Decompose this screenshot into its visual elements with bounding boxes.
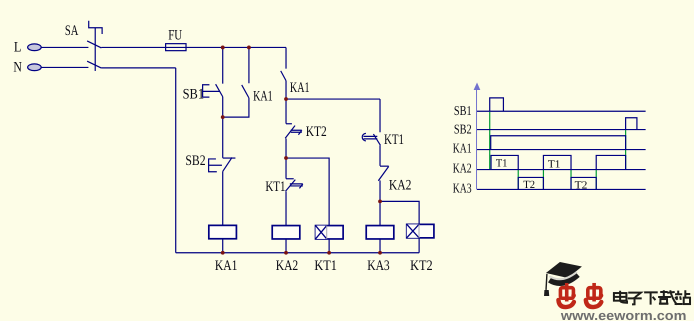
- junction dot node KT2/KT1: [284, 156, 288, 160]
- switch SA linkage bracket: [89, 21, 102, 34]
- fuse FU body: [166, 44, 186, 51]
- timing KA3 pulse 1: [518, 177, 543, 189]
- wire N to SA: [41, 66, 88, 68]
- wire node to KT2 coil branch: [380, 201, 419, 224]
- timing green marker t5: [625, 130, 627, 170]
- logo graduation cap tassel tuft: [544, 290, 549, 296]
- pushbutton SB2 actuator bracket: [209, 159, 222, 172]
- timing KA3 baseline: [477, 188, 646, 190]
- timer coil KT2 X square fill: [407, 224, 419, 238]
- svg-text:KT1: KT1: [265, 179, 285, 195]
- contact KT1 NO delay symbol: [363, 136, 377, 139]
- wire coil KT2 to rail: [418, 238, 420, 253]
- timing SB2 pulse: [626, 118, 637, 130]
- svg-text:SB1: SB1: [454, 103, 472, 118]
- junction dot node KA3/KT2: [378, 199, 382, 203]
- junction dot node KA1 contact: [284, 97, 288, 101]
- junction dot top 1: [221, 46, 225, 50]
- svg-text:KT1: KT1: [314, 258, 337, 274]
- junction dot top 2: [247, 46, 251, 50]
- pushbutton SB1 actuator bracket: [203, 85, 220, 97]
- switch SA linkage bar: [94, 28, 96, 71]
- wire coil KT1 to rail: [328, 239, 330, 253]
- logo char zai slash: [667, 290, 677, 304]
- pushbutton SB1 blade: [216, 84, 223, 97]
- svg-text:KA1: KA1: [215, 258, 238, 274]
- contact KT2 blade: [285, 126, 295, 139]
- logo char xia stem: [651, 292, 656, 304]
- wire FU to node corner: [186, 46, 286, 48]
- logo char xia top: [644, 291, 658, 293]
- timing KA1 baseline: [477, 149, 646, 151]
- contact KT2 fixed bar: [286, 123, 292, 125]
- logo char dian hook: [620, 300, 627, 302]
- logo worm char 1 stem: [565, 283, 569, 302]
- contact KA1 seal-in top drop: [248, 47, 250, 83]
- junction dot rail KA2: [284, 251, 288, 255]
- junction dot rail KA3: [378, 251, 382, 255]
- timing green marker t0: [489, 112, 491, 170]
- timer coil KT1 X mark: [316, 226, 327, 239]
- svg-text:KA2: KA2: [453, 160, 472, 175]
- junction dot rail KA1: [221, 251, 225, 255]
- wire KA2 contact to node: [379, 180, 381, 201]
- terminal N: [28, 64, 42, 71]
- wire KT1 NO to KA2 contact: [379, 145, 381, 166]
- relay coil KA3: [366, 226, 394, 239]
- wire KA1 contact to node: [285, 81, 287, 99]
- contact KT2 delay symbol: [291, 130, 302, 135]
- wire node to SB2: [222, 117, 224, 158]
- pushbutton SB2 stop bar: [223, 157, 236, 159]
- svg-text:KT2: KT2: [306, 124, 327, 140]
- logo graduation cap tassel cord: [545, 274, 548, 290]
- svg-text:KA2: KA2: [389, 177, 412, 193]
- logo char zhan li: [675, 291, 683, 304]
- logo char zai top: [658, 290, 671, 297]
- logo char zi top: [628, 293, 641, 298]
- wire SA to FU: [101, 46, 165, 48]
- wire N rail left vertical: [175, 68, 177, 253]
- junction dot rail KT1: [327, 251, 331, 255]
- timing green marker t3: [570, 170, 572, 190]
- timer coil KT1: [316, 226, 344, 239]
- wire node to coil KA3: [379, 201, 381, 225]
- wire L to SA: [41, 46, 88, 48]
- wire node to KT1 branch: [286, 98, 380, 100]
- svg-text:KA3: KA3: [453, 180, 472, 195]
- junction dot SB1/KA1 merge: [221, 115, 225, 119]
- contact KA1 seal-in blade: [242, 85, 249, 98]
- logo char zai box: [660, 299, 667, 304]
- pushbutton SB2 blade: [223, 157, 232, 171]
- timing green marker t2: [542, 170, 544, 190]
- timing KA2 baseline: [477, 169, 646, 171]
- fuse FU through wire: [166, 46, 186, 48]
- contact KA2 top bar: [380, 165, 389, 167]
- logo worm char 1 tail: [558, 300, 574, 307]
- wire SB1 bottom drop: [222, 97, 224, 117]
- wire SB1 top drop: [222, 47, 224, 83]
- svg-text:T2: T2: [575, 179, 588, 191]
- timing SB2 baseline: [477, 129, 646, 131]
- wire top corner down: [285, 47, 287, 68]
- wire SB2 to coil KA1: [222, 171, 224, 225]
- timing KA1 pulse: [491, 136, 626, 150]
- wire N rail horizontal: [101, 67, 175, 69]
- logo graduation cap crown: [550, 274, 578, 282]
- wire KA1 seal-in bottom drop: [223, 98, 249, 117]
- relay coil KA1: [209, 225, 237, 238]
- logo char zai bottom: [659, 303, 669, 305]
- logo char zi mid: [628, 297, 642, 304]
- timer coil KT2 X mark: [407, 224, 419, 238]
- logo worm char 2 tail: [586, 300, 602, 307]
- wire node to KT1 coil branch: [286, 158, 329, 226]
- logo graduation cap board: [546, 262, 582, 278]
- relay coil KA2: [272, 226, 300, 239]
- timer coil KT2: [407, 224, 434, 238]
- logo worm char 2 stem: [592, 283, 596, 302]
- svg-text:KT2: KT2: [410, 258, 433, 274]
- svg-text:SB2: SB2: [454, 121, 472, 136]
- timing KA2 pulse 2: [543, 155, 571, 169]
- wire node down to KT2 contact: [285, 99, 287, 124]
- svg-text:SB2: SB2: [185, 153, 205, 169]
- wire node down to KT1 contact: [285, 158, 287, 179]
- timing KA2 pulse 1: [491, 155, 518, 169]
- contact KT1 NO blade: [373, 134, 380, 145]
- svg-text:L: L: [14, 39, 22, 55]
- svg-text:KA1: KA1: [453, 141, 472, 156]
- contact KT1 fixed bar: [286, 178, 294, 180]
- timing KA2 pulse 3: [596, 155, 625, 169]
- terminal L: [28, 44, 42, 51]
- svg-text:SB1: SB1: [183, 87, 205, 103]
- svg-text:T2: T2: [523, 179, 535, 191]
- svg-text:KA2: KA2: [276, 258, 299, 274]
- logo char dian box: [614, 293, 627, 301]
- timing SB1 baseline: [477, 110, 646, 112]
- contact KA1 right blade: [281, 71, 286, 81]
- wire coil KA1 to rail: [222, 239, 224, 253]
- contact KT1 blade: [286, 180, 296, 192]
- svg-text:T1: T1: [496, 157, 508, 169]
- svg-text:T1: T1: [548, 158, 561, 170]
- svg-text:SA: SA: [65, 23, 79, 39]
- wire right branch down: [379, 99, 381, 132]
- contact KT1 NO delay arc: [362, 133, 366, 141]
- wire coil KA3 to rail: [379, 239, 381, 253]
- logo graduation cap stripe: [549, 272, 577, 279]
- wire KT1 contact to coil KA2: [285, 191, 287, 225]
- switch SA blade N pole: [87, 61, 101, 68]
- timing diagram axis arrow: [476, 89, 478, 189]
- wire coil KA2 to rail: [285, 239, 287, 253]
- logo worm char 2 dot: [599, 293, 604, 298]
- logo worm char 1 box: [560, 288, 573, 299]
- contact KT1 delay symbol: [290, 184, 303, 189]
- svg-text:N: N: [13, 59, 22, 75]
- svg-text:www.eeworm.com: www.eeworm.com: [560, 308, 687, 321]
- switch SA blade L pole: [87, 41, 101, 48]
- logo worm char 1 dot: [571, 293, 576, 298]
- timer coil KT1 X square fill: [316, 226, 327, 239]
- timing SB1 pulse: [490, 98, 504, 111]
- svg-text:KT1: KT1: [384, 132, 404, 148]
- timing green marker t1: [517, 170, 519, 190]
- logo worm char 2 box: [588, 288, 601, 299]
- contact KA2 blade: [378, 166, 388, 180]
- svg-text:KA3: KA3: [367, 258, 390, 274]
- timing green marker t4: [595, 170, 597, 190]
- svg-text:FU: FU: [168, 28, 182, 44]
- logo char zhan zhan: [685, 290, 690, 297]
- svg-text:KA1: KA1: [253, 88, 273, 104]
- logo char dian mid: [614, 291, 627, 301]
- timing KA3 pulse 2: [571, 177, 596, 189]
- svg-text:KA1: KA1: [290, 80, 310, 96]
- wire bottom rail: [176, 252, 419, 254]
- wire KT2 contact to node: [285, 138, 287, 158]
